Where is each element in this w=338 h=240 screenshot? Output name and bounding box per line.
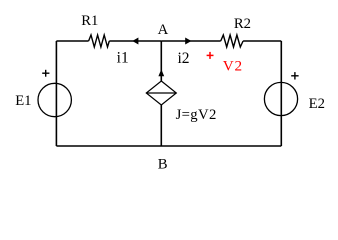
- wire right vertical (through E2): [280, 41, 282, 146]
- svg-text:i1: i1: [117, 50, 129, 67]
- resistor R2: [221, 35, 243, 47]
- dependent current source J diamond: [146, 81, 176, 105]
- plus sign of V2 (red): [207, 52, 214, 59]
- svg-text:R1: R1: [81, 13, 98, 29]
- svg-text:B: B: [158, 156, 168, 172]
- svg-text:V2: V2: [223, 58, 243, 75]
- diamond chord: [146, 92, 176, 94]
- wire left vertical (through E1): [55, 41, 57, 146]
- wire node A down to source: [160, 41, 162, 81]
- svg-text:E1: E1: [15, 93, 31, 109]
- wire bottom: [56, 145, 281, 147]
- svg-text:i2: i2: [177, 50, 189, 67]
- svg-text:A: A: [158, 22, 169, 38]
- wire node A to R2: [161, 40, 220, 42]
- source arrow (points up): [158, 69, 164, 76]
- svg-text:R2: R2: [234, 16, 251, 32]
- svg-text:E2: E2: [309, 96, 325, 112]
- plus sign of E2: [291, 72, 298, 79]
- plus sign of E1: [42, 70, 49, 77]
- wire R1 to node A: [109, 40, 161, 42]
- resistor R1: [89, 35, 110, 47]
- current arrow i2 (points right): [185, 38, 191, 45]
- voltage source E2 circle: [264, 82, 297, 115]
- wire source down to node B: [160, 105, 162, 146]
- wire top-left segment: [56, 40, 88, 42]
- svg-text:J=gV2: J=gV2: [176, 107, 217, 123]
- voltage source E1 circle: [38, 83, 71, 116]
- current arrow i1 (points left): [132, 38, 138, 45]
- wire R2 to top-right corner: [243, 40, 281, 42]
